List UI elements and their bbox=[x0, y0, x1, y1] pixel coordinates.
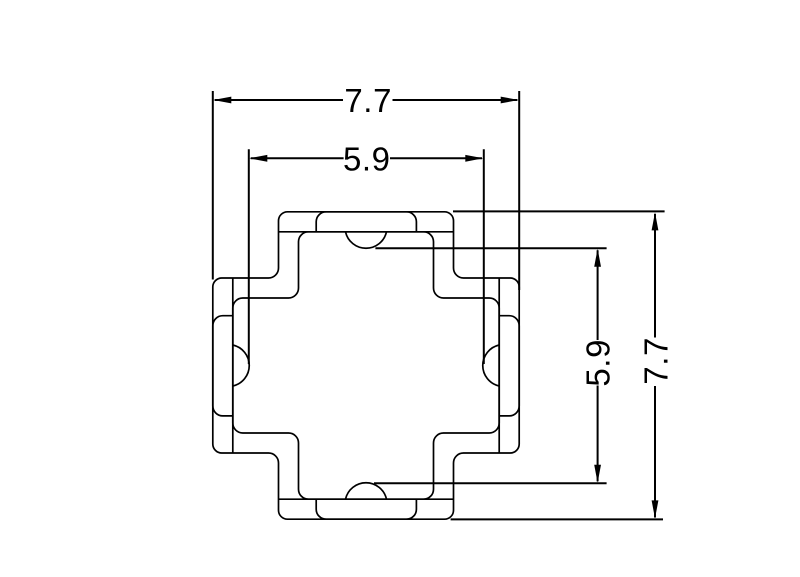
arrow 7.7 right down bbox=[652, 500, 659, 518]
bump left bbox=[233, 345, 249, 386]
dim 5.9 right: extension line top bbox=[375, 247, 606, 249]
svg-text:5.9: 5.9 bbox=[343, 140, 391, 177]
dim 5.9 top: extension line right bbox=[483, 149, 485, 364]
arrow 5.9 right up bbox=[594, 249, 601, 267]
dim 7.7 right: line bottom segment bbox=[654, 386, 656, 518]
step chord left bbox=[232, 278, 234, 453]
bump right bbox=[483, 345, 499, 386]
dim 7.7 right: extension line bottom bbox=[451, 518, 663, 520]
step chord top bbox=[279, 231, 454, 233]
svg-text:5.9: 5.9 bbox=[580, 339, 617, 387]
pad top bbox=[316, 212, 416, 232]
step chord right bbox=[498, 278, 500, 453]
dim 5.9 top: line left segment bbox=[251, 157, 344, 159]
dim 5.9 top: line right segment bbox=[390, 157, 482, 159]
step chord bottom bbox=[279, 498, 454, 500]
arrow 5.9 right down bbox=[594, 465, 601, 483]
outer cross contour bbox=[213, 212, 519, 519]
dim 7.7 top: line left segment bbox=[215, 99, 343, 101]
arrow 5.9 top right bbox=[465, 155, 483, 162]
dim 7.7 top: extension line right bbox=[518, 91, 520, 290]
dim 5.9 top: extension line left bbox=[248, 149, 250, 364]
arrow 7.7 right up bbox=[652, 212, 659, 230]
arrow 5.9 top left bbox=[249, 155, 267, 162]
pad left bbox=[213, 316, 233, 416]
dim 7.7 right: line top segment bbox=[654, 214, 656, 338]
pad bottom bbox=[316, 499, 416, 519]
dim 5.9 right: extension line bottom bbox=[374, 482, 607, 484]
arrow 7.7 top right bbox=[501, 97, 519, 104]
dim 5.9 right: line top segment bbox=[597, 250, 599, 340]
svg-text:7.7: 7.7 bbox=[344, 82, 392, 119]
bump bottom bbox=[346, 483, 387, 499]
dim 5.9 right: line bottom segment bbox=[597, 386, 599, 482]
inner cross contour bbox=[233, 232, 499, 499]
dim 7.7 top: extension line left bbox=[212, 91, 214, 280]
dim 7.7 top: line right segment bbox=[393, 99, 518, 101]
pad right bbox=[499, 316, 519, 416]
arrow 7.7 top left bbox=[213, 97, 231, 104]
bump top bbox=[346, 232, 387, 248]
dim 7.7 right: extension line top bbox=[453, 210, 665, 212]
svg-text:7.7: 7.7 bbox=[637, 337, 674, 385]
